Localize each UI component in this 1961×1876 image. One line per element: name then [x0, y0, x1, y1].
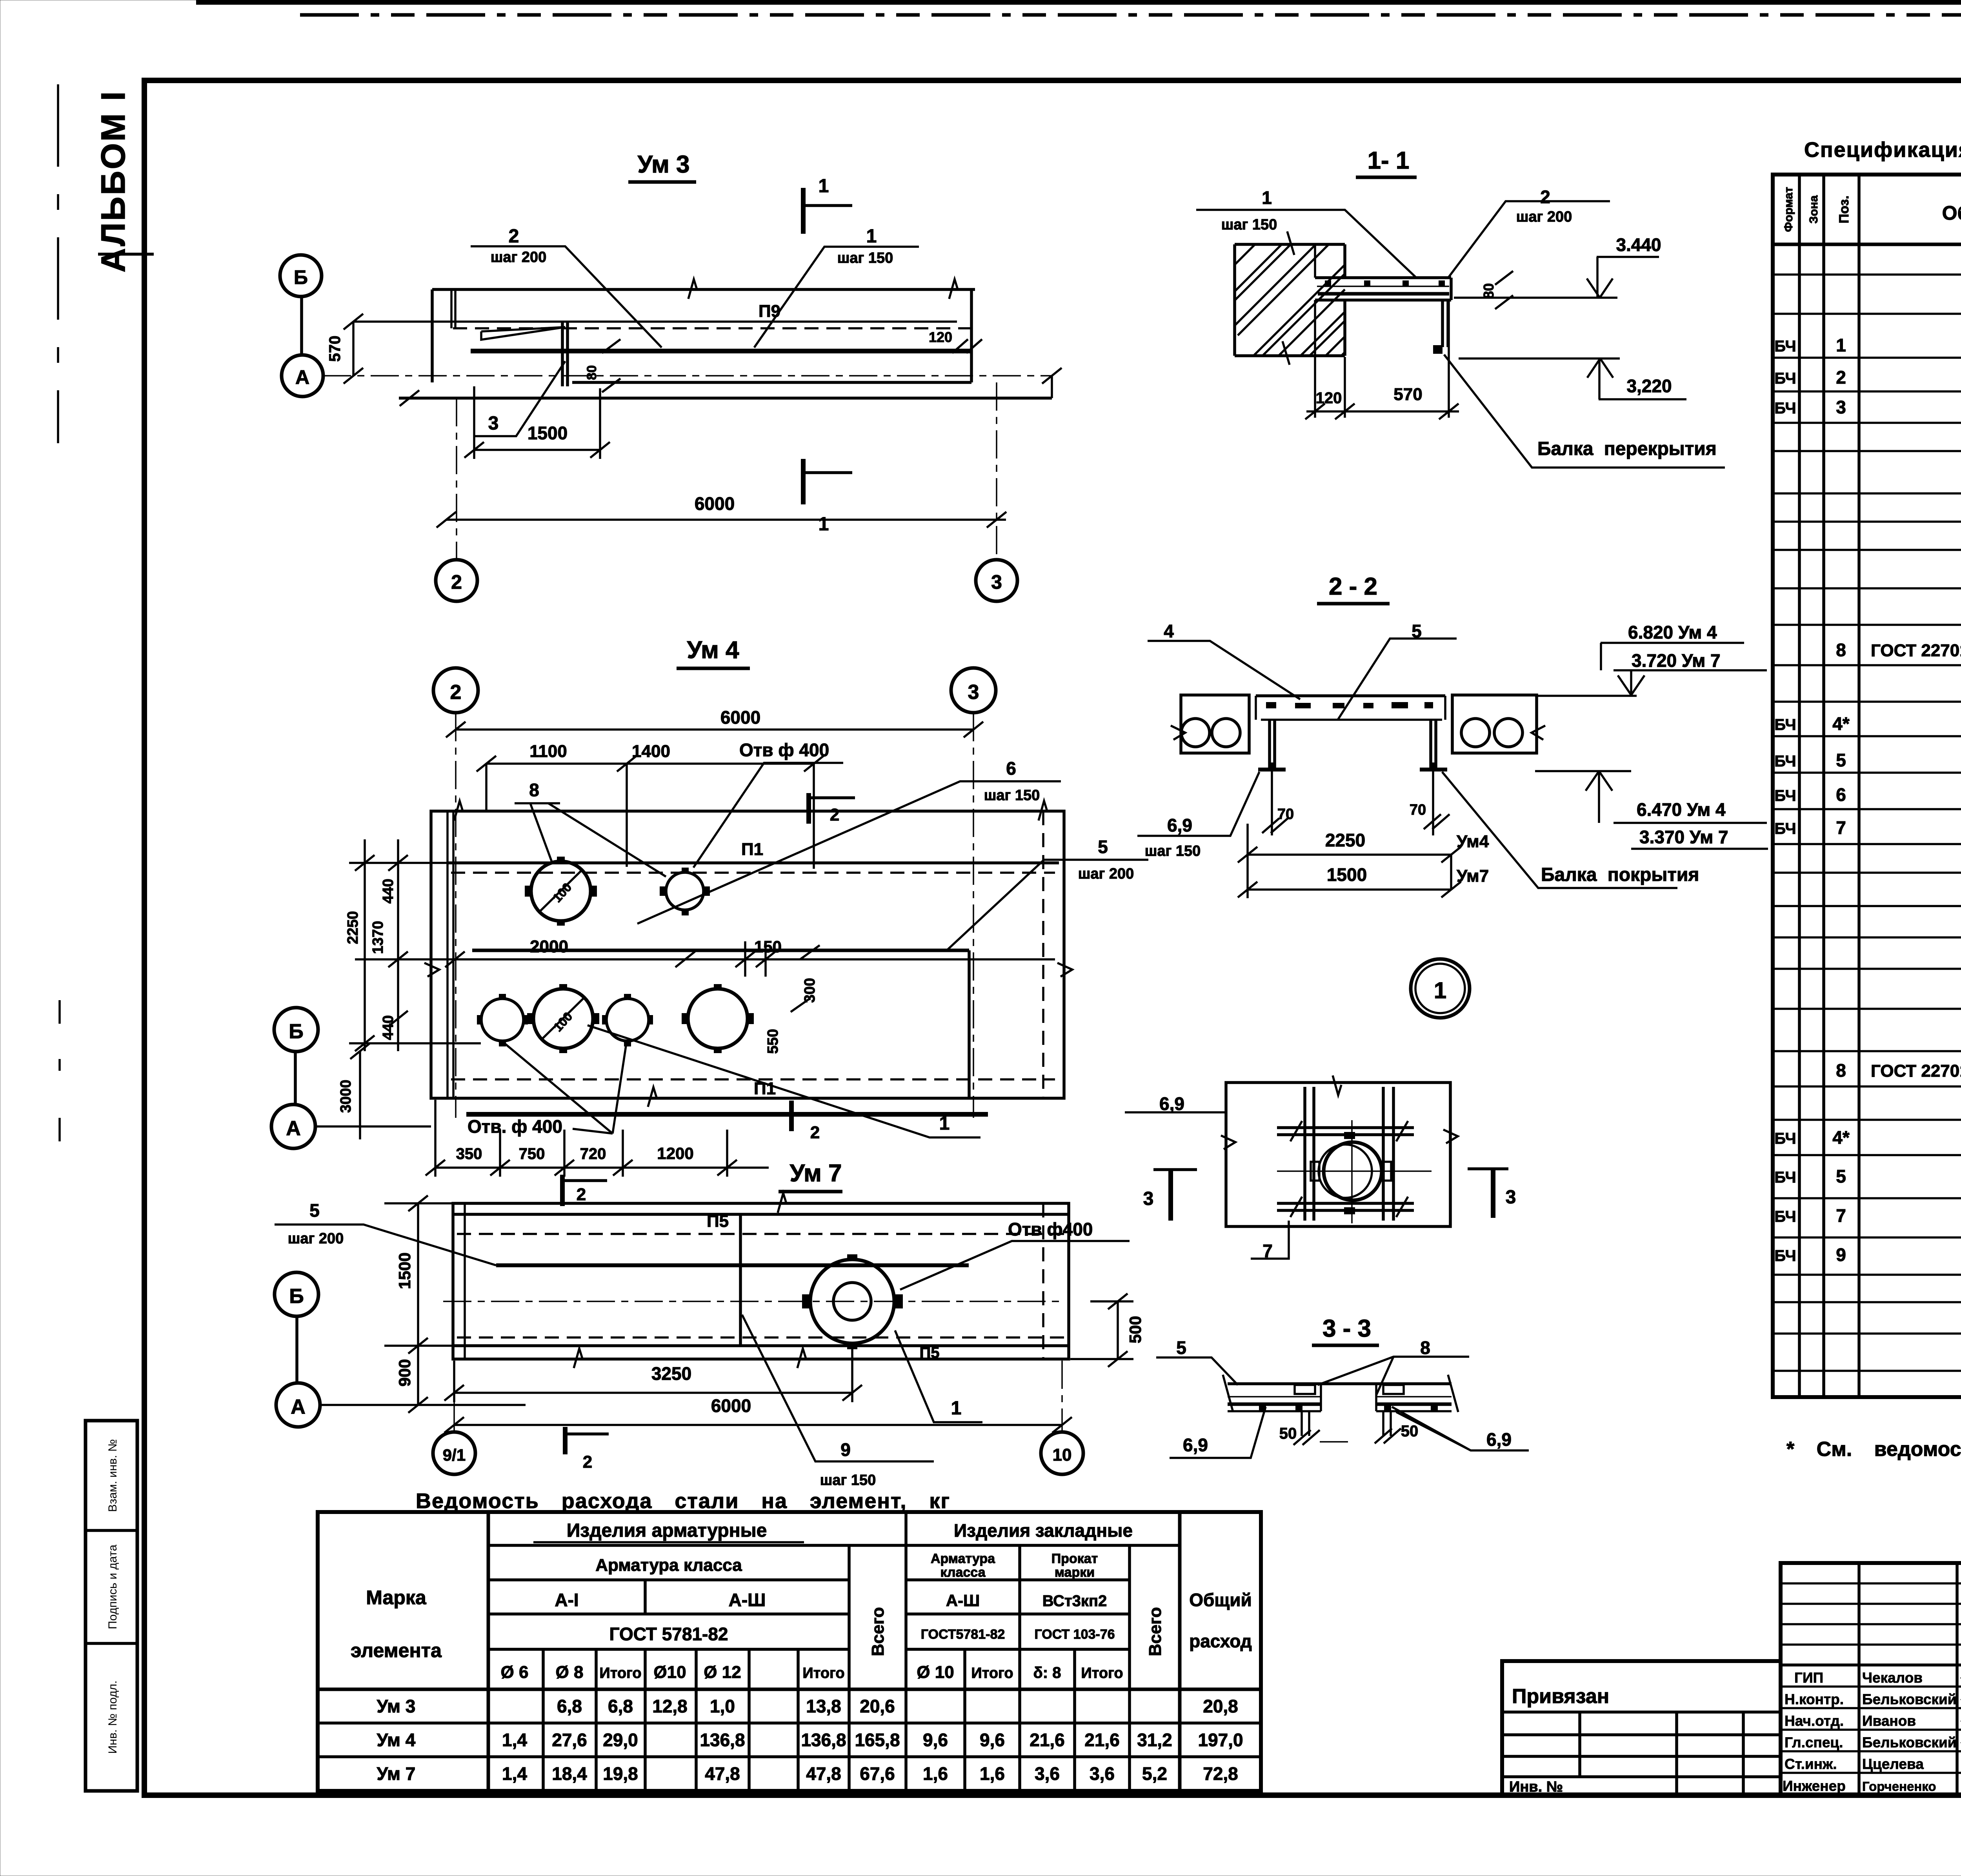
svg-text:П1: П1: [741, 840, 763, 859]
section mark 1 bottom: [801, 459, 806, 504]
axis connector: [300, 297, 303, 355]
svg-text:47,8: 47,8: [806, 1763, 841, 1784]
svg-text:4*: 4*: [1832, 713, 1850, 734]
svg-text:47,8: 47,8: [705, 1763, 740, 1784]
wall break marks: [1282, 231, 1294, 365]
svg-text:8: 8: [529, 780, 539, 800]
svg-text:2250: 2250: [1325, 830, 1365, 850]
svg-text:3.720 Ум 7: 3.720 Ум 7: [1632, 650, 1721, 671]
rebar dots: [1325, 280, 1331, 286]
section mark 2 bottom: [789, 1101, 794, 1131]
top band line: [453, 1213, 1069, 1216]
svg-text:1: 1: [951, 1398, 962, 1419]
svg-text:Горчененко: Горчененко: [1862, 1779, 1936, 1794]
break marks: [574, 1193, 806, 1368]
svg-text:класса: класса: [940, 1565, 986, 1580]
svg-text:165,8: 165,8: [855, 1730, 900, 1750]
svg-text:Обозначение: Обозначение: [1942, 202, 1961, 224]
svg-text:ГОСТ5781-82: ГОСТ5781-82: [921, 1627, 1005, 1642]
axis circle A left: [271, 1104, 315, 1148]
dashed rebar line: [453, 327, 975, 329]
svg-text:3 - 3: 3 - 3: [1322, 1315, 1371, 1342]
plan outline: [431, 811, 1064, 1098]
svg-text:6,8: 6,8: [608, 1696, 633, 1716]
svg-text:Ст.инж.: Ст.инж.: [1785, 1756, 1837, 1772]
svg-text:1: 1: [1836, 335, 1846, 355]
wedge bracket: [481, 327, 565, 340]
svg-text:А-Ш: А-Ш: [729, 1590, 766, 1610]
svg-text:Ум 7: Ум 7: [377, 1763, 416, 1784]
svg-text:100: 100: [551, 1009, 575, 1034]
dims 120 570: [1315, 301, 1449, 418]
svg-text:ГОСТ 227015-77: ГОСТ 227015-77: [1871, 1061, 1961, 1081]
svg-text:120: 120: [1316, 389, 1342, 407]
svg-text:9,6: 9,6: [923, 1730, 948, 1750]
heavy rebar line: [471, 349, 971, 353]
svg-text:А: А: [286, 1117, 301, 1140]
svg-text:шаг 150: шаг 150: [820, 1472, 876, 1488]
slab band: [1315, 278, 1451, 300]
svg-text:Итого: Итого: [1081, 1665, 1123, 1681]
svg-text:Бельковский: Бельковский: [1862, 1734, 1956, 1750]
svg-text:БЧ: БЧ: [1774, 787, 1796, 804]
right dashed vertical: [1042, 1203, 1044, 1359]
svg-text:20,6: 20,6: [860, 1696, 895, 1716]
svg-text:5: 5: [1836, 750, 1846, 770]
svg-text:100: 100: [550, 880, 574, 905]
svg-text:ГОСТ 103-76: ГОСТ 103-76: [1034, 1627, 1115, 1642]
svg-text:П9: П9: [759, 302, 780, 321]
svg-text:шаг 200: шаг 200: [288, 1230, 344, 1247]
svg-text:3: 3: [1143, 1188, 1154, 1209]
panel joint vertical: [739, 1214, 742, 1346]
svg-text:Ø10: Ø10: [653, 1663, 686, 1682]
mid double bars: [562, 322, 568, 386]
steel table horizontals: [488, 1544, 1180, 1547]
axis 2 dash line: [455, 713, 457, 1118]
svg-text:2: 2: [451, 571, 462, 593]
svg-text:Отв ф400: Отв ф400: [1008, 1219, 1093, 1239]
small slashes on rebar: [1290, 1121, 1408, 1217]
dims 1100 1400: [486, 762, 814, 765]
svg-text:ГИП: ГИП: [1794, 1670, 1823, 1686]
svg-text:δ: 8: δ: 8: [1033, 1664, 1061, 1681]
svg-text:Изделия закладные: Изделия закладные: [954, 1520, 1133, 1541]
svg-text:2: 2: [1540, 187, 1550, 207]
svg-text:1,0: 1,0: [710, 1696, 735, 1716]
svg-text:2: 2: [830, 805, 839, 824]
lower holes row: [481, 999, 524, 1041]
svg-text:1,6: 1,6: [980, 1763, 1005, 1784]
svg-text:Чекалов: Чекалов: [1862, 1670, 1923, 1686]
svg-text:П5: П5: [707, 1212, 729, 1231]
svg-text:Всего: Всего: [1146, 1607, 1165, 1656]
svg-text:Инв. №: Инв. №: [1509, 1779, 1563, 1795]
left margin stamp strip: [85, 1421, 137, 1791]
svg-text:3: 3: [968, 681, 979, 704]
right hollowcore slab: [1452, 695, 1537, 753]
svg-text:П5: П5: [920, 1344, 940, 1361]
svg-text:5: 5: [1098, 837, 1108, 857]
DETAIL PLAN (hole node): [1125, 1075, 1516, 1261]
svg-text:350: 350: [456, 1145, 482, 1163]
axis circle B: [275, 1272, 318, 1316]
left page edge dashes lower: [58, 1000, 61, 1145]
svg-text:21,6: 21,6: [1030, 1730, 1065, 1750]
svg-text:1100: 1100: [529, 742, 567, 761]
svg-text:1500: 1500: [1327, 864, 1367, 885]
svg-text:шаг 150: шаг 150: [1221, 217, 1277, 233]
svg-text:3: 3: [991, 571, 1002, 593]
svg-text:Отв. ф 400: Отв. ф 400: [468, 1116, 562, 1137]
svg-text:8: 8: [1836, 640, 1846, 660]
mid thick rebar line: [496, 1263, 969, 1267]
svg-text:1: 1: [819, 176, 829, 197]
right dim closure: [1042, 368, 1062, 398]
svg-text:Привязан: Привязан: [1512, 1685, 1609, 1708]
svg-text:6000: 6000: [695, 493, 735, 514]
axis A dash-dot: [323, 375, 1052, 377]
svg-text:3: 3: [1836, 397, 1846, 417]
svg-text:440: 440: [380, 879, 397, 903]
ext lines left: [349, 863, 481, 1043]
svg-text:8: 8: [1836, 1060, 1846, 1081]
svg-text:2: 2: [509, 226, 519, 247]
steel table diameter verticals: [542, 1649, 545, 1791]
svg-text:1,4: 1,4: [502, 1763, 527, 1784]
svg-text:Балка перекрытия: Балка перекрытия: [1537, 439, 1717, 459]
svg-text:9,6: 9,6: [980, 1730, 1005, 1750]
svg-text:Взам. инв. №: Взам. инв. №: [106, 1439, 119, 1512]
svg-text:1: 1: [866, 226, 877, 247]
horizontal rebar double lines lower: [1277, 1203, 1414, 1210]
svg-text:А: А: [291, 1396, 306, 1418]
svg-text:Ø 8: Ø 8: [556, 1663, 584, 1682]
svg-text:Иванов: Иванов: [1862, 1713, 1916, 1729]
axis 2 line: [456, 398, 457, 559]
svg-text:1500: 1500: [395, 1252, 414, 1289]
svg-text:3250: 3250: [651, 1363, 691, 1384]
svg-text:5,2: 5,2: [1142, 1763, 1167, 1784]
svg-text:Ццелева: Ццелева: [1862, 1756, 1924, 1772]
top band line: [448, 861, 1059, 864]
svg-text:1400: 1400: [632, 742, 670, 761]
right dashed vertical: [1042, 811, 1044, 1098]
right end vertical: [970, 289, 973, 382]
joint edges: [1321, 1384, 1376, 1411]
svg-text:8: 8: [1420, 1337, 1430, 1358]
svg-text:6,9: 6,9: [1159, 1094, 1184, 1114]
wall hatch block: [1235, 244, 1345, 356]
dim 1500: [474, 386, 600, 459]
svg-text:3,6: 3,6: [1090, 1763, 1115, 1784]
svg-text:1500: 1500: [528, 423, 568, 443]
svg-text:29,0: 29,0: [603, 1730, 638, 1750]
svg-text:570: 570: [1393, 385, 1422, 404]
bottom long line: [399, 397, 1052, 400]
svg-text:1- 1: 1- 1: [1368, 147, 1410, 174]
svg-text:Б: Б: [294, 266, 308, 288]
svg-text:Ум 4: Ум 4: [687, 637, 739, 664]
svg-text:Инженер: Инженер: [1783, 1778, 1846, 1794]
svg-text:Б: Б: [289, 1020, 303, 1043]
svg-text:2: 2: [450, 681, 462, 704]
svg-text:9/1: 9/1: [443, 1446, 466, 1464]
svg-text:550: 550: [765, 1029, 781, 1054]
svg-text:Изделия арматурные: Изделия арматурные: [567, 1520, 767, 1541]
svg-text:3000: 3000: [338, 1080, 354, 1113]
break marks on outline: [424, 801, 1072, 1107]
svg-text:1370: 1370: [370, 921, 386, 954]
svg-text:6,9: 6,9: [1183, 1435, 1208, 1455]
section mark 1 top: [801, 188, 806, 234]
slab strip top: [1228, 1382, 1452, 1385]
break mark top: [688, 279, 697, 299]
svg-text:5: 5: [309, 1200, 320, 1221]
svg-text:Арматура: Арматура: [931, 1551, 995, 1566]
SECTION 1-1: [1196, 147, 1725, 468]
svg-text:БЧ: БЧ: [1774, 1208, 1796, 1225]
svg-text:6,9: 6,9: [1486, 1429, 1512, 1450]
slab left edge: [431, 289, 434, 382]
svg-text:Спецификация монолитных учас: Спецификация монолитных участков Ум 3, У…: [1804, 138, 1961, 162]
section mark 2 below dims: [560, 1175, 565, 1206]
top scan edge strip: [196, 0, 1961, 5]
svg-text:Ум4: Ум4: [1457, 832, 1489, 851]
svg-text:Арматура класса: Арматура класса: [595, 1556, 742, 1575]
svg-text:31,2: 31,2: [1137, 1730, 1172, 1750]
svg-text:Формат: Формат: [1782, 187, 1795, 232]
SECTION 3-3: [1156, 1315, 1529, 1458]
upper solid line: [353, 320, 957, 323]
vertical joint line: [968, 950, 971, 1098]
svg-text:Марка: Марка: [366, 1587, 427, 1609]
svg-text:5: 5: [1836, 1166, 1846, 1186]
spec table row lines: [1773, 275, 1961, 1371]
strip lines left part: [1228, 1396, 1452, 1397]
svg-text:3.440: 3.440: [1616, 235, 1661, 255]
dim 6000: [454, 1424, 1062, 1426]
svg-text:Отв ф 400: Отв ф 400: [739, 740, 829, 760]
svg-text:4: 4: [1164, 621, 1174, 641]
spec table outer box: [1773, 175, 1961, 1397]
svg-text:720: 720: [580, 1145, 606, 1163]
break marks: [1221, 1075, 1458, 1149]
svg-text:Подпись и дата: Подпись и дата: [106, 1545, 119, 1629]
svg-text:Всего: Всего: [868, 1607, 888, 1656]
svg-text:2: 2: [583, 1452, 592, 1472]
left dim 1500/900: [417, 1203, 419, 1405]
axis circle 2: [436, 560, 477, 601]
svg-text:Инв. № подл.: Инв. № подл.: [106, 1681, 119, 1754]
svg-text:Б: Б: [289, 1285, 304, 1308]
svg-text:Ум 3: Ум 3: [377, 1696, 416, 1716]
svg-text:Ум 4: Ум 4: [377, 1730, 416, 1750]
svg-text:Ум 7: Ум 7: [789, 1160, 842, 1187]
svg-text:БЧ: БЧ: [1774, 753, 1796, 770]
svg-text:50: 50: [1401, 1423, 1419, 1440]
outer rect: [1226, 1083, 1450, 1226]
axis circle 3 top: [951, 668, 996, 713]
svg-text:3: 3: [488, 413, 499, 434]
svg-text:120: 120: [929, 329, 952, 345]
bottom band line: [453, 1344, 1069, 1347]
svg-text:21,6: 21,6: [1084, 1730, 1120, 1750]
bottom dims 350 750 720 1200: [435, 1166, 769, 1169]
beam pair right: [1383, 1087, 1393, 1221]
svg-text:570: 570: [326, 336, 344, 362]
steel table outer box: [318, 1512, 1261, 1791]
svg-text:67,6: 67,6: [860, 1763, 895, 1784]
rebar marks in band: [1266, 702, 1276, 708]
spec table header bottom line: [1773, 243, 1961, 246]
svg-text:900: 900: [395, 1359, 414, 1387]
slab lower line: [572, 381, 971, 384]
svg-text:1: 1: [819, 514, 829, 535]
svg-text:1: 1: [1262, 187, 1272, 208]
svg-text:ГОСТ 5781-82: ГОСТ 5781-82: [609, 1624, 728, 1644]
svg-text:Ø 6: Ø 6: [501, 1663, 529, 1682]
end break marks: [1223, 1375, 1458, 1412]
right rib: [1431, 720, 1436, 768]
svg-text:шаг 200: шаг 200: [1516, 209, 1572, 225]
axis circle B: [280, 255, 322, 297]
spec table column lines: [1798, 175, 1801, 1397]
upper hole big: [531, 861, 591, 921]
VIEW UM3: [280, 151, 1062, 601]
dowels: [1302, 1411, 1391, 1436]
axis circle A: [276, 1383, 320, 1427]
plan outline: [453, 1203, 1069, 1359]
svg-text:2: 2: [577, 1185, 586, 1204]
hole circle: [810, 1259, 894, 1343]
svg-text:750: 750: [519, 1145, 545, 1163]
album label tick line: [98, 253, 154, 256]
svg-text:Итого: Итого: [971, 1665, 1013, 1681]
svg-text:7: 7: [1836, 817, 1846, 838]
svg-text:136,8: 136,8: [801, 1730, 846, 1750]
channel notches: [1295, 1385, 1315, 1394]
svg-text:6000: 6000: [711, 1396, 751, 1416]
svg-text:5: 5: [1176, 1337, 1186, 1358]
hole circle double: [1324, 1142, 1382, 1200]
steel data rows: [377, 1696, 1243, 1784]
axis 3 line: [996, 382, 997, 559]
mid line 2000-dim line: [455, 958, 1055, 961]
svg-text:шаг 150: шаг 150: [837, 250, 893, 266]
dim 2000: [445, 952, 695, 967]
svg-text:20,8: 20,8: [1203, 1696, 1238, 1716]
svg-text:* См. ведомость деталей на: * См. ведомость деталей на листе 26: [1786, 1438, 1961, 1461]
svg-text:12,8: 12,8: [652, 1696, 688, 1716]
svg-text:элемента: элемента: [351, 1639, 442, 1661]
svg-text:2 - 2: 2 - 2: [1329, 573, 1377, 600]
svg-text:Н.контр.: Н.контр.: [1785, 1691, 1844, 1707]
SPEC-TABLE: [1773, 138, 1961, 1397]
top dash-dot page edge line: [300, 13, 1961, 17]
svg-text:шаг 150: шаг 150: [984, 787, 1040, 804]
break mark right: [949, 279, 958, 299]
bottom band dashed: [451, 1078, 1055, 1081]
svg-text:Общий: Общий: [1189, 1590, 1252, 1610]
center cross lines: [1277, 1120, 1432, 1223]
svg-text:136,8: 136,8: [700, 1730, 745, 1750]
svg-text:БЧ: БЧ: [1774, 370, 1796, 387]
node circle 1: [1411, 959, 1470, 1018]
svg-text:6000: 6000: [720, 707, 760, 728]
bottom heavy line: [466, 1112, 988, 1117]
svg-text:6.820 Ум 4: 6.820 Ум 4: [1628, 622, 1717, 642]
inner left double vertical: [464, 1203, 466, 1359]
plates beside circle: [1311, 1162, 1319, 1181]
svg-text:1200: 1200: [657, 1144, 693, 1163]
STEEL CONSUMPTION TABLE: [318, 1489, 1261, 1791]
svg-text:расход: расход: [1189, 1631, 1252, 1651]
svg-text:7: 7: [1836, 1205, 1846, 1226]
svg-text:Ø 12: Ø 12: [704, 1663, 741, 1682]
svg-text:Гл.спец.: Гл.спец.: [1785, 1734, 1843, 1750]
dim 6000 top: [456, 728, 973, 731]
svg-text:50: 50: [1279, 1425, 1297, 1442]
svg-text:Балка покрытия: Балка покрытия: [1541, 864, 1699, 885]
dim 2250: [1248, 853, 1451, 856]
svg-text:Бельковский: Бельковский: [1862, 1691, 1956, 1707]
svg-text:6: 6: [1006, 758, 1016, 779]
axis circle 3: [976, 560, 1017, 601]
svg-text:2: 2: [1836, 367, 1846, 388]
svg-text:27,6: 27,6: [552, 1730, 587, 1750]
left page edge dashed line: [57, 84, 59, 443]
axis circle 9/1: [433, 1432, 475, 1474]
svg-text:1,6: 1,6: [923, 1763, 948, 1784]
svg-text:БЧ: БЧ: [1774, 400, 1796, 417]
svg-text:А-Ш: А-Ш: [946, 1591, 980, 1610]
section mark 2 top: [806, 793, 811, 824]
axis 3 dash line: [973, 713, 974, 1118]
svg-text:марки: марки: [1055, 1565, 1095, 1580]
svg-text:1: 1: [1434, 978, 1446, 1003]
svg-text:Ум 3: Ум 3: [637, 151, 689, 178]
svg-text:6,9: 6,9: [1167, 815, 1192, 835]
beam pair left: [1305, 1087, 1314, 1221]
svg-text:150: 150: [754, 937, 782, 956]
bottom dashed: [457, 1336, 1065, 1339]
svg-text:ГОСТ 22701. 5-77: ГОСТ 22701. 5-77: [1871, 641, 1961, 660]
mid rebar thick line: [472, 949, 969, 952]
svg-text:Ø 10: Ø 10: [917, 1663, 954, 1682]
svg-text:Ведомость расхода стали на эле: Ведомость расхода стали на элемент, кг: [416, 1489, 950, 1513]
axis circle 2 top: [433, 668, 478, 713]
TITLE BLOCK: [1502, 1563, 1961, 1808]
svg-text:3: 3: [1506, 1187, 1516, 1208]
dim 1500: [1248, 888, 1451, 891]
left rib: [1270, 720, 1275, 768]
section mark 3 left: [1153, 1168, 1197, 1171]
left dim chain 440 1370 440: [397, 839, 399, 1051]
axis circle 10: [1041, 1432, 1083, 1474]
upper hole small: [666, 872, 704, 910]
svg-text:18,4: 18,4: [552, 1763, 587, 1784]
slab top line: [432, 288, 975, 291]
beam hanger: [1443, 300, 1448, 347]
top band dashed: [457, 1233, 1065, 1235]
svg-text:Итого: Итого: [802, 1665, 844, 1681]
monolithic band: [1256, 694, 1445, 697]
signature table: [1781, 1563, 1961, 1796]
svg-text:6: 6: [1836, 784, 1846, 805]
svg-text:13,8: 13,8: [806, 1696, 841, 1716]
right dim 500: [1117, 1301, 1119, 1359]
